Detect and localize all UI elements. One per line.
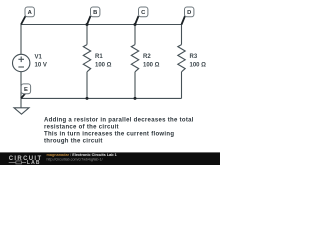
ground <box>14 98 29 114</box>
svg-text:resistance of the circuit: resistance of the circuit <box>44 125 119 131</box>
node A flag <box>21 7 34 25</box>
caption text <box>44 118 194 145</box>
node E flag <box>21 84 31 99</box>
svg-text:D: D <box>187 10 191 16</box>
junction dot C <box>134 23 137 26</box>
svg-text:V1: V1 <box>35 55 43 61</box>
resistor R1 <box>83 25 90 99</box>
svg-text:100 Ω: 100 Ω <box>143 62 160 68</box>
label R3 100 Ohm <box>190 54 207 68</box>
node C flag <box>135 7 148 25</box>
label R1 100 Ohm <box>95 54 112 68</box>
svg-text:R2: R2 <box>143 54 151 60</box>
logo wire and resistor box <box>9 161 26 164</box>
voltage source V1 <box>13 25 30 99</box>
svg-text:magnanadar / Electronic Circui: magnanadar / Electronic Circuits Lab 1 <box>47 153 117 157</box>
svg-text:100 Ω: 100 Ω <box>190 62 207 68</box>
label R2 100 Ohm <box>143 54 160 68</box>
svg-text:R1: R1 <box>95 54 103 60</box>
node B flag <box>87 7 100 25</box>
svg-text:B: B <box>93 10 97 16</box>
node D flag <box>182 7 194 25</box>
wire bottom bus <box>21 97 182 99</box>
svg-text:10 V: 10 V <box>35 63 47 69</box>
svg-text:This in turn increases the cur: This in turn increases the current flowi… <box>44 132 174 138</box>
label V1 10 V <box>35 55 47 69</box>
svg-text:LAB: LAB <box>27 160 41 165</box>
junction dot B <box>86 23 89 26</box>
svg-text:http://circuitlab.com/c/7wb4qj: http://circuitlab.com/c/7wb4qj/lab-1/ <box>47 158 103 162</box>
junction dot R2 bottom <box>134 97 137 100</box>
junction dot R1 bottom <box>86 97 89 100</box>
resistor R2 <box>131 25 138 99</box>
svg-text:E: E <box>24 87 28 93</box>
svg-text:Adding a resistor in parallel: Adding a resistor in parallel decreases … <box>44 118 194 124</box>
resistor R3 <box>178 25 185 99</box>
footer bar <box>0 152 220 165</box>
wire top bus <box>21 24 182 26</box>
svg-text:R3: R3 <box>190 54 198 60</box>
svg-text:100 Ω: 100 Ω <box>95 62 112 68</box>
svg-text:through the circuit: through the circuit <box>44 139 103 145</box>
